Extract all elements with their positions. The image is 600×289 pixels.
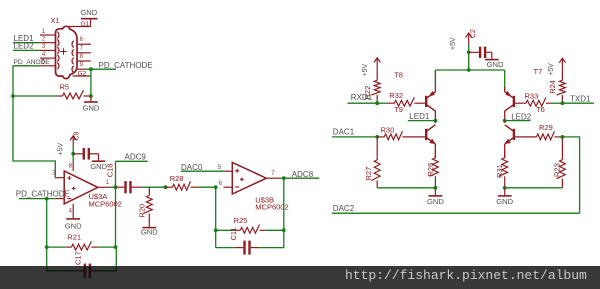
- junction R25 left: [214, 228, 218, 232]
- svg-text:R27: R27: [364, 167, 373, 181]
- junction R29 / R23 / DAC2: [561, 135, 565, 139]
- wire T9 emitter down to R26: [434, 144, 436, 158]
- wire R25 right lead: [266, 229, 284, 231]
- watermark band: [0, 266, 600, 289]
- net label LED1: [14, 34, 35, 43]
- net label LED2: [14, 42, 35, 51]
- pin 2 stub of U$3A: [56, 198, 64, 200]
- svg-text:T8: T8: [394, 71, 403, 80]
- wire T7 collector to rail: [504, 87, 506, 92]
- junction +5V / bypass cap: [71, 152, 75, 156]
- svg-text:MCP6002: MCP6002: [89, 199, 122, 208]
- wire LED2 stub: [505, 120, 531, 122]
- junction pin9 net: [89, 67, 93, 71]
- wire R25 left lead: [216, 229, 234, 231]
- transistor T9 name: [394, 105, 403, 114]
- svg-text:7: 7: [271, 171, 275, 177]
- junction pin2 / feedback: [45, 197, 49, 201]
- wire RXD1 to R32: [377, 102, 388, 104]
- wire bottom rail right stage: [505, 187, 563, 189]
- svg-text:5: 5: [218, 165, 222, 171]
- capacitor C9 name: [73, 131, 80, 140]
- svg-text:C2: C2: [470, 29, 477, 38]
- pin 4 stub of U$3A: [69, 204, 74, 215]
- wire PD_ANODE down to U$3A +input: [13, 96, 56, 178]
- wire rail riser right: [504, 70, 506, 92]
- net label PD_ANODE: [14, 59, 51, 66]
- wire U$3B output: [279, 177, 284, 179]
- ground GND below R5: [82, 96, 99, 113]
- svg-text:R20: R20: [137, 204, 146, 218]
- junction R20 tap: [164, 185, 168, 189]
- svg-text:GND: GND: [80, 8, 97, 17]
- svg-text:R32: R32: [389, 91, 403, 100]
- resistor R23: [553, 137, 566, 188]
- op-amp U$3A name: [89, 192, 108, 201]
- ground GND right of U$3A cap: [90, 161, 107, 171]
- pin label G1: [81, 21, 90, 28]
- wire LED1 to pin 2: [13, 42, 40, 44]
- svg-text:DAC2: DAC2: [333, 204, 355, 213]
- transistor T8 name: [394, 71, 403, 80]
- wire R21 left lead: [47, 246, 65, 248]
- svg-text:2: 2: [42, 37, 46, 43]
- svg-text:R26: R26: [426, 163, 435, 177]
- wire T9 collector up: [434, 121, 436, 123]
- wire pin9 PD_CATHODE: [85, 68, 116, 70]
- svg-text:R24: R24: [548, 80, 557, 94]
- svg-text:T6: T6: [536, 105, 545, 114]
- connector X1 DB9 body: [40, 26, 91, 78]
- svg-text:T9: T9: [394, 105, 403, 114]
- capacitor C2 bypass: [469, 47, 492, 58]
- wire +5V top rail: [435, 69, 504, 71]
- capacitor C18: [106, 164, 143, 194]
- wire R21 left down to C17: [47, 247, 76, 271]
- svg-text:+5V: +5V: [548, 63, 555, 76]
- wire LED1 stub: [408, 120, 436, 122]
- ground GND left driver: [427, 188, 444, 206]
- junction R21 left: [45, 245, 49, 249]
- svg-text:C11: C11: [229, 227, 238, 240]
- wire T7 emitter to LED2 node: [504, 111, 506, 121]
- svg-text:TXD1: TXD1: [570, 95, 591, 104]
- capacitor C17: [73, 251, 99, 278]
- junction R25 right: [282, 228, 286, 232]
- pin 6 stub of U$3B: [219, 181, 233, 187]
- resistor R5: [57, 82, 91, 99]
- wire C17 right up to R21: [99, 247, 116, 271]
- junction DAC1 / R27: [375, 135, 379, 139]
- svg-text:ADC9: ADC9: [125, 153, 147, 162]
- junction LED2 node: [503, 119, 507, 123]
- wire rail riser left green: [434, 70, 436, 84]
- supply +5V center: [450, 33, 472, 50]
- svg-text:4: 4: [69, 209, 73, 215]
- op-amp U$3A value: [89, 199, 122, 208]
- wire cap to GND: [98, 154, 100, 161]
- svg-text:R25: R25: [234, 216, 248, 225]
- svg-text:GND: GND: [141, 228, 158, 237]
- svg-text:X1: X1: [51, 16, 60, 25]
- net label RXD1: [351, 93, 373, 102]
- wire +5V center down: [468, 46, 470, 71]
- transistor T7 (upper, PNP): [505, 91, 514, 111]
- svg-text:R23: R23: [553, 163, 562, 177]
- wire C18 to R28: [142, 186, 165, 188]
- svg-text:+5V: +5V: [362, 64, 369, 77]
- supply +5V at U$3A: [57, 136, 76, 156]
- wire PD_CATHODE to pin2: [19, 198, 56, 200]
- svg-text:PD_ANODE: PD_ANODE: [14, 59, 51, 66]
- transistor T6 name: [536, 105, 545, 114]
- resistor R32: [388, 91, 425, 106]
- wire +5V to pin8: [72, 146, 74, 160]
- svg-text:8: 8: [69, 164, 73, 170]
- svg-text:R33: R33: [525, 91, 539, 100]
- svg-text:6: 6: [80, 37, 84, 43]
- transistor T9 (lower, NPN): [426, 125, 435, 144]
- svg-text:1: 1: [106, 180, 110, 186]
- svg-text:G2: G2: [78, 71, 87, 78]
- wire T8 collector to rail: [434, 70, 436, 92]
- junction U$3A output: [114, 185, 118, 189]
- watermark url text: [345, 268, 587, 283]
- junction LED1 node: [434, 119, 438, 123]
- svg-text:R28: R28: [170, 174, 184, 183]
- wire PD_ANODE pin 5: [13, 66, 40, 96]
- ground GND below R20: [141, 224, 158, 237]
- svg-text:R5: R5: [60, 82, 70, 91]
- resistor R25: [234, 216, 266, 233]
- net label DAC2: [333, 204, 355, 213]
- svg-text:LED1: LED1: [409, 112, 430, 121]
- junction rail / +5V: [467, 68, 471, 72]
- pin 7 stub of U$3B: [266, 171, 279, 178]
- wire DAC0 to pin5: [181, 170, 224, 172]
- wire ADC9 stub: [116, 160, 148, 162]
- wire G2 down to R5: [90, 69, 92, 96]
- ground GND center: [485, 60, 504, 70]
- junction RXD1 / R22 / R32: [375, 101, 379, 105]
- net label DAC0: [181, 163, 203, 172]
- svg-text:PD_CATHODE: PD_CATHODE: [99, 61, 153, 70]
- supply +5V above R22: [362, 58, 381, 77]
- svg-text:9: 9: [80, 62, 84, 68]
- svg-text:GND: GND: [65, 222, 82, 231]
- pin 5 stub of U$3B: [218, 165, 233, 171]
- wire output U$3A: [111, 186, 116, 188]
- resistor R24: [548, 68, 565, 103]
- svg-text:ADC8: ADC8: [292, 170, 314, 179]
- svg-text:GND: GND: [82, 104, 99, 113]
- resistor R30: [377, 126, 425, 140]
- svg-text:R29: R29: [539, 123, 553, 132]
- wire T6 collector up: [504, 121, 506, 123]
- wire R29 to junction: [559, 136, 563, 138]
- wire R28 to U$3B pin6: [199, 186, 216, 188]
- supply +5V above R24: [548, 58, 566, 76]
- wire DAC1 to R30: [332, 136, 377, 138]
- svg-text:C18: C18: [106, 164, 115, 178]
- wire C2 to GND: [491, 52, 493, 59]
- wire ADC8 stub: [284, 177, 319, 179]
- wire T8 emitter to LED1 node: [434, 111, 436, 121]
- resistor R31: [495, 150, 508, 188]
- svg-text:T7: T7: [534, 67, 543, 76]
- wire C11 to output: [259, 178, 284, 247]
- op-amp U$3B name: [255, 195, 274, 204]
- svg-text:DAC1: DAC1: [333, 127, 355, 136]
- wire PD_ANODE to R5: [13, 95, 57, 97]
- svg-text:+5V: +5V: [57, 143, 64, 156]
- svg-text:8: 8: [80, 54, 84, 60]
- svg-text:PD_CATHODE: PD_CATHODE: [16, 189, 70, 198]
- net label PD_CATHODE at U$3A: [16, 189, 70, 198]
- resistor R29: [515, 123, 558, 140]
- svg-text:1: 1: [42, 29, 46, 35]
- op-amp U$3B triangle: [232, 162, 266, 194]
- svg-text:GND: GND: [487, 60, 504, 69]
- svg-text:+5V: +5V: [450, 37, 457, 50]
- resistor R28: [166, 174, 199, 190]
- junction R5 / GND: [89, 94, 93, 98]
- svg-text:LED2: LED2: [14, 42, 35, 51]
- resistor R33: [515, 91, 551, 106]
- net label DAC1: [333, 127, 355, 136]
- svg-text:C9: C9: [73, 131, 80, 140]
- junction TXD1 / R24 / R33: [561, 101, 565, 105]
- connector X1 name: [51, 16, 60, 25]
- net label LED2 at driver: [511, 112, 532, 121]
- wire TXD1 stub: [562, 102, 594, 104]
- wire DAC2 run: [332, 137, 580, 213]
- wire output vertical: [115, 161, 117, 247]
- pin number 3 of U$3A: [52, 171, 56, 177]
- capacitor bypass at U$3A: [73, 148, 98, 160]
- op-amp U$3A triangle: [64, 171, 98, 204]
- pin 3 stub of U$3A: [56, 177, 64, 179]
- net label ADC9: [125, 153, 147, 162]
- op-amp U$3B value: [255, 202, 288, 211]
- junction rail / R31 / GND: [503, 186, 507, 190]
- ground GND at X1 G1: [80, 8, 97, 19]
- ground GND below U$3A: [65, 215, 82, 231]
- wire RXD1 stub: [348, 102, 378, 104]
- capacitor C11: [229, 227, 258, 254]
- junction PD_ANODE / R5: [11, 94, 15, 98]
- resistor R21: [65, 233, 98, 250]
- net label ADC8: [292, 170, 314, 179]
- connector X1 pin numbers 1-9: [42, 29, 84, 68]
- svg-text:C17: C17: [73, 251, 82, 265]
- wire pin2 down to R21: [46, 199, 48, 248]
- transistor T7 name: [534, 67, 543, 76]
- junction center cap tap: [467, 50, 471, 54]
- junction U$3B output: [282, 176, 286, 180]
- junction R21 right: [114, 245, 118, 249]
- svg-text:R31: R31: [495, 164, 504, 178]
- svg-text:GND: GND: [496, 197, 513, 206]
- wire G1 to GND: [68, 20, 91, 27]
- wire T6 emitter down to R31: [504, 144, 506, 158]
- ground GND right driver: [496, 188, 513, 206]
- net label PD_CATHODE: [99, 61, 153, 70]
- wire R33 to TXD1 junction: [552, 102, 563, 104]
- svg-text:4: 4: [42, 52, 46, 58]
- transistor T8 (upper, PNP): [426, 91, 435, 111]
- svg-text:R21: R21: [67, 233, 81, 242]
- svg-text:6: 6: [219, 181, 223, 187]
- wire C11 bottom run: [216, 247, 235, 249]
- resistor R26: [426, 150, 438, 188]
- svg-text:GND: GND: [427, 197, 444, 206]
- junction pin6 / feedback: [214, 185, 218, 189]
- svg-text:3: 3: [42, 44, 46, 50]
- svg-text:7: 7: [80, 46, 84, 52]
- capacitor C2 name: [470, 29, 477, 38]
- svg-text:DAC0: DAC0: [181, 163, 203, 172]
- net label LED1 at driver: [409, 112, 430, 121]
- transistor T6 (lower, NPN): [505, 125, 514, 144]
- junction rail / R26 / GND: [434, 186, 438, 190]
- net label TXD1: [570, 95, 591, 104]
- svg-text:R30: R30: [381, 126, 395, 135]
- svg-text:G1: G1: [81, 21, 90, 28]
- resistor R27: [364, 137, 380, 188]
- wire pin6 down: [215, 187, 217, 247]
- resistor R22: [363, 68, 380, 103]
- wire R21 right lead: [98, 246, 115, 248]
- pin 1 stub of U$3A: [98, 180, 111, 187]
- pin 8 stub of U$3A: [69, 160, 74, 171]
- wire LED2 to pin 3: [13, 49, 40, 51]
- pin G2 line: [73, 71, 91, 78]
- wire bottom rail left stage: [377, 187, 435, 189]
- svg-text:RXD1: RXD1: [351, 93, 373, 102]
- resistor R20: [137, 187, 152, 223]
